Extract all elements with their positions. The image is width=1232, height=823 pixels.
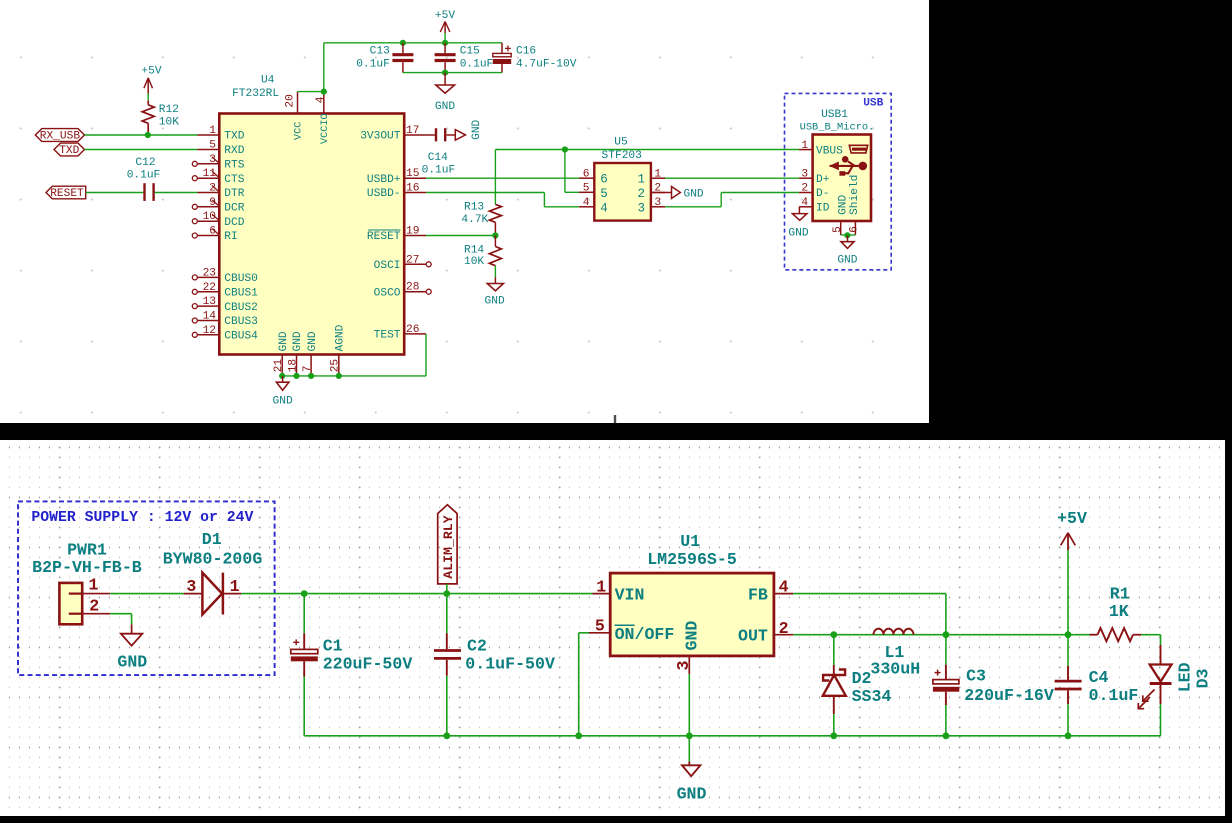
global label RX_USB bbox=[35, 129, 84, 142]
wire USBD- to U5 pin 4 bbox=[544, 206, 579, 208]
svg-text:14: 14 bbox=[203, 311, 217, 323]
PWR1 pin 2 bbox=[69, 613, 82, 615]
svg-text:LM2596S-5: LM2596S-5 bbox=[647, 550, 737, 569]
USB1 pin 3 D+ bbox=[799, 177, 813, 179]
svg-text:R13: R13 bbox=[464, 201, 484, 213]
svg-text:C12: C12 bbox=[135, 157, 155, 169]
svg-text:DCR: DCR bbox=[224, 203, 244, 215]
bottom panel background (grid) bbox=[0, 440, 1225, 816]
svg-text:R1: R1 bbox=[1110, 585, 1130, 604]
U4 pin 11 CTS bbox=[198, 177, 220, 179]
svg-text:7: 7 bbox=[302, 366, 314, 373]
svg-text:11: 11 bbox=[203, 168, 217, 180]
svg-text:GND: GND bbox=[471, 119, 483, 139]
wire USBD- segment bbox=[426, 192, 544, 194]
U4 pin 1 TXD bbox=[198, 134, 220, 136]
svg-text:TEST: TEST bbox=[374, 330, 401, 342]
svg-text:C14: C14 bbox=[428, 152, 448, 164]
svg-text:25: 25 bbox=[330, 359, 342, 372]
junction C2/ALIM_RLY bbox=[443, 590, 450, 597]
svg-text:6: 6 bbox=[849, 226, 861, 233]
U5 pin 2 bbox=[651, 192, 665, 194]
svg-text:3V3OUT: 3V3OUT bbox=[360, 131, 401, 143]
ground flag at U5 pin 2 bbox=[651, 192, 672, 194]
svg-text:220uF-16V: 220uF-16V bbox=[964, 686, 1054, 705]
wire ON/OFF to gnd rail bbox=[579, 632, 589, 634]
U4 pin 16 USBD- bbox=[404, 192, 426, 194]
U1 pin 4 FB bbox=[774, 593, 793, 595]
svg-text:220uF-50V: 220uF-50V bbox=[323, 654, 413, 673]
svg-text:5: 5 bbox=[832, 226, 844, 233]
wire OUT net bbox=[793, 634, 1089, 636]
svg-text:GND: GND bbox=[307, 331, 319, 351]
junction D2 bbox=[830, 631, 837, 638]
capacitor C12 0.1uF bbox=[143, 183, 145, 201]
svg-text:15: 15 bbox=[406, 168, 419, 180]
U4 pin 9 DCR bbox=[198, 206, 220, 208]
svg-text:3: 3 bbox=[637, 201, 645, 215]
svg-text:OSCO: OSCO bbox=[374, 287, 401, 299]
wire VCC-VCCIO bbox=[298, 91, 324, 93]
capacitor C1 220uF-50V (polarized) bbox=[303, 594, 305, 634]
svg-text:C2: C2 bbox=[467, 636, 487, 655]
USB receptacle icon bbox=[849, 145, 867, 153]
USB1 pin 6 Shield (bottom) bbox=[854, 221, 856, 235]
svg-text:4.7K: 4.7K bbox=[461, 214, 488, 226]
wire U5 pin 3 to USB D- bbox=[665, 206, 721, 208]
svg-text:4: 4 bbox=[583, 197, 590, 209]
U4 pin 7 GND (bottom) bbox=[310, 355, 312, 376]
U5 pin 4 bbox=[579, 206, 594, 208]
U4 pin 28 OSCO bbox=[404, 291, 426, 293]
op-amp U4 FT232RL body bbox=[219, 114, 404, 355]
svg-text:6: 6 bbox=[209, 226, 216, 238]
ground rail (bottom) bbox=[304, 735, 1160, 737]
svg-text:+5V: +5V bbox=[1057, 509, 1087, 528]
svg-text:VBUS: VBUS bbox=[816, 145, 843, 157]
junction C2 rail bbox=[443, 732, 450, 739]
U1 pin 1 VIN bbox=[593, 593, 611, 595]
svg-text:2: 2 bbox=[209, 183, 216, 195]
svg-text:2: 2 bbox=[89, 597, 99, 616]
svg-text:DCD: DCD bbox=[224, 217, 244, 229]
svg-text:1: 1 bbox=[801, 140, 808, 152]
global label RESET bbox=[46, 186, 86, 199]
svg-text:19: 19 bbox=[406, 226, 419, 238]
wire VCCIO rail up bbox=[323, 43, 325, 92]
ground at ID pin bbox=[798, 207, 800, 214]
junction C13 top bbox=[400, 40, 406, 46]
svg-text:RI: RI bbox=[224, 231, 237, 243]
capacitor C14 0.1uF bbox=[435, 128, 437, 141]
svg-text:AGND: AGND bbox=[335, 324, 347, 351]
junction C4 bottom bbox=[1065, 732, 1072, 739]
svg-text:RTS: RTS bbox=[224, 160, 244, 172]
svg-text:GND: GND bbox=[837, 255, 857, 267]
svg-text:B2P-VH-FB-B: B2P-VH-FB-B bbox=[32, 558, 142, 577]
U4 pin 4 VCCIO (top) bbox=[323, 92, 325, 114]
wire VBUS to R13 bbox=[494, 150, 496, 205]
svg-text:0.1uF: 0.1uF bbox=[356, 58, 390, 70]
svg-text:2: 2 bbox=[779, 619, 789, 638]
svg-text:4: 4 bbox=[801, 197, 808, 209]
svg-text:3: 3 bbox=[186, 577, 196, 596]
U4 pin 25 AGND (bottom) bbox=[338, 355, 340, 376]
PWR1 pin 1 bbox=[69, 592, 82, 594]
svg-text:USBD+: USBD+ bbox=[367, 174, 401, 186]
svg-text:D3: D3 bbox=[1194, 668, 1213, 688]
svg-text:POWER SUPPLY : 12V or 24V: POWER SUPPLY : 12V or 24V bbox=[31, 510, 253, 526]
top panel background (white) bbox=[0, 0, 929, 423]
wire RX_USB to pin 1 bbox=[85, 134, 198, 136]
svg-text:D-: D- bbox=[816, 188, 829, 200]
wire +5V to R12 bbox=[147, 94, 149, 101]
ground right of C14 bbox=[455, 130, 465, 141]
U4 pin 27 OSCI bbox=[404, 263, 426, 265]
global label ALIM_RLY (vertical) bbox=[438, 505, 457, 584]
svg-text:0.1uF: 0.1uF bbox=[1089, 686, 1139, 705]
U4 pin 2 DTR bbox=[198, 192, 220, 194]
svg-text:TXD: TXD bbox=[224, 131, 244, 143]
wire PWR1 pin2 to GND bbox=[110, 613, 131, 615]
svg-text:2: 2 bbox=[637, 187, 645, 201]
svg-text:0.1uF: 0.1uF bbox=[127, 170, 161, 182]
U5 pin 5 bbox=[579, 191, 594, 193]
junction FB/C3 bbox=[943, 631, 950, 638]
USB1 pin 2 D- bbox=[799, 192, 813, 194]
junction shield gnd bbox=[844, 232, 850, 238]
svg-text:CBUS3: CBUS3 bbox=[224, 316, 258, 328]
svg-text:U5: U5 bbox=[614, 137, 627, 149]
junction C3 bottom bbox=[943, 732, 950, 739]
USB trident icon bbox=[830, 165, 859, 167]
dashed box POWER SUPPLY bbox=[18, 501, 275, 675]
svg-text:C1: C1 bbox=[323, 636, 343, 655]
ground below caps bbox=[444, 73, 446, 85]
junction at R12/TXD wire bbox=[145, 132, 151, 138]
U4 pin 15 USBD+ bbox=[404, 177, 426, 179]
svg-text:10K: 10K bbox=[464, 256, 484, 268]
inductor L1 330uH bbox=[874, 629, 914, 635]
U1 pin 2 OUT bbox=[774, 634, 793, 636]
svg-text:5: 5 bbox=[209, 140, 216, 152]
svg-text:BYW80-200G: BYW80-200G bbox=[163, 550, 263, 569]
svg-text:DTR: DTR bbox=[224, 188, 244, 200]
svg-text:LED: LED bbox=[1175, 662, 1194, 692]
svg-text:5: 5 bbox=[600, 187, 608, 201]
U1 pin 5 ON/OFF bbox=[589, 632, 610, 634]
svg-text:GND: GND bbox=[273, 395, 293, 407]
ground below U1 bbox=[688, 736, 690, 762]
junction C1 bbox=[301, 590, 308, 597]
ground below USB1 bbox=[847, 235, 849, 241]
wire PWR1 pin1 to D1 bbox=[110, 593, 184, 595]
svg-text:GND: GND bbox=[485, 296, 505, 308]
resistor R14 10K bbox=[494, 236, 496, 247]
svg-text:3: 3 bbox=[209, 154, 216, 166]
U5 pin 6 bbox=[579, 177, 594, 179]
svg-text:FT232RL: FT232RL bbox=[232, 88, 279, 100]
resistor R1 1K bbox=[1090, 634, 1098, 636]
svg-text:1: 1 bbox=[209, 125, 216, 137]
svg-text:+5V: +5V bbox=[435, 10, 455, 22]
svg-text:RESET: RESET bbox=[367, 231, 401, 243]
wire top +5V rail bbox=[324, 42, 502, 44]
svg-text:U1: U1 bbox=[680, 532, 700, 551]
U4 pin 13 CBUS2 bbox=[198, 305, 220, 307]
junction ON/OFF rail bbox=[575, 732, 582, 739]
U4 pin 12 CBUS4 bbox=[198, 334, 220, 336]
resistor R13 4.7K bbox=[489, 204, 501, 222]
svg-text:22: 22 bbox=[203, 282, 216, 294]
svg-text:GND: GND bbox=[292, 331, 304, 351]
wire TXD to pin 5 bbox=[85, 149, 198, 151]
svg-text:CBUS2: CBUS2 bbox=[224, 302, 258, 314]
junction U1 GND rail bbox=[686, 732, 693, 739]
sheet boundary tick bbox=[614, 415, 616, 423]
U4 pin 18 GND (bottom) bbox=[296, 355, 298, 376]
svg-text:20: 20 bbox=[284, 94, 296, 108]
U5 pin 1 bbox=[651, 177, 665, 179]
svg-text:GND: GND bbox=[838, 194, 850, 214]
U1 pin 3 GND (bottom) bbox=[688, 656, 690, 674]
wire D1 to U1 VIN bbox=[241, 593, 592, 595]
U5 pin 3 bbox=[651, 206, 665, 208]
svg-text:SS34: SS34 bbox=[852, 687, 892, 706]
wire caps bottom rail bbox=[403, 72, 502, 74]
capacitor C13 0.1uF bbox=[402, 43, 404, 53]
svg-text:CTS: CTS bbox=[224, 174, 244, 186]
wire C12 to pin 2 bbox=[155, 192, 198, 194]
capacitor C15 0.1uF bbox=[444, 43, 446, 53]
svg-text:GND: GND bbox=[117, 653, 147, 672]
svg-text:330uH: 330uH bbox=[870, 660, 920, 679]
svg-text:0.1uF: 0.1uF bbox=[460, 58, 494, 70]
svg-text:USB1: USB1 bbox=[821, 109, 848, 121]
svg-text:4: 4 bbox=[600, 201, 608, 215]
capacitor C2 0.1uF-50V bbox=[446, 594, 448, 634]
svg-text:GND: GND bbox=[677, 785, 707, 804]
svg-text:3: 3 bbox=[654, 197, 661, 209]
ground below R14 bbox=[494, 266, 496, 278]
svg-text:RX_USB: RX_USB bbox=[40, 131, 81, 143]
svg-text:FB: FB bbox=[748, 585, 768, 604]
svg-text:5: 5 bbox=[583, 183, 590, 195]
USB1 pin 1 VBUS bbox=[799, 149, 813, 151]
U4 pin 20 VCC (top) bbox=[297, 92, 299, 114]
IC U1 LM2596S-5 body bbox=[610, 573, 774, 656]
dashed box USB bbox=[785, 93, 892, 269]
junction VCCIO bbox=[321, 89, 327, 95]
svg-text:C4: C4 bbox=[1089, 668, 1109, 687]
junction R13/R14/RESET bbox=[492, 232, 498, 238]
U4 pin 17 3V3OUT bbox=[404, 134, 426, 136]
junction GND pins bbox=[279, 373, 285, 379]
junction +5V/C4 bbox=[1065, 631, 1072, 638]
svg-text:GND: GND bbox=[788, 227, 808, 239]
junction VBUS to U5 pin 5 bbox=[562, 146, 568, 152]
U4 pin 23 CBUS0 bbox=[198, 276, 220, 278]
svg-text:16: 16 bbox=[406, 183, 419, 195]
svg-text:18: 18 bbox=[287, 359, 299, 372]
svg-text:1: 1 bbox=[637, 173, 645, 187]
global label TXD bbox=[54, 143, 85, 156]
svg-text:C15: C15 bbox=[460, 45, 480, 57]
svg-text:CBUS4: CBUS4 bbox=[224, 331, 258, 343]
svg-text:21: 21 bbox=[273, 359, 285, 373]
wire U5 pin 1 to USB D+ bbox=[665, 177, 799, 179]
svg-text:3: 3 bbox=[801, 168, 808, 180]
ground below pin 21 bbox=[282, 376, 284, 382]
junction C15 top bbox=[442, 40, 448, 46]
svg-text:USB_B_Micro.: USB_B_Micro. bbox=[800, 121, 875, 133]
U4 pin 6 RI bbox=[198, 235, 220, 237]
svg-text:9: 9 bbox=[209, 197, 216, 209]
svg-text:+5V: +5V bbox=[141, 66, 161, 78]
U4 pin 21 GND (bottom) bbox=[281, 355, 283, 376]
diode D2 SS34 (schottky) bbox=[833, 635, 835, 665]
U4 pin 10 DCD bbox=[198, 220, 220, 222]
U4 pin 14 CBUS3 bbox=[198, 320, 220, 322]
svg-text:2: 2 bbox=[801, 183, 808, 195]
svg-text:C16: C16 bbox=[516, 45, 536, 57]
svg-text:OUT: OUT bbox=[738, 627, 768, 646]
wire FB net bbox=[793, 593, 946, 595]
wire RESET pin 19 bbox=[426, 235, 495, 237]
U4 pin 26 TEST bbox=[404, 333, 426, 335]
wire RESET to C12 bbox=[86, 192, 144, 194]
U4 pin 19 RESET bbox=[404, 235, 426, 237]
svg-text:D2: D2 bbox=[852, 669, 872, 688]
svg-text:28: 28 bbox=[406, 282, 419, 294]
svg-text:USB: USB bbox=[863, 98, 883, 110]
svg-text:ON/OFF: ON/OFF bbox=[615, 625, 675, 644]
svg-text:5: 5 bbox=[595, 617, 605, 636]
wire VBUS drop to U5 pin 5 bbox=[564, 150, 566, 193]
IC U5 STF203 body bbox=[594, 163, 651, 221]
LED D3 bbox=[1160, 635, 1162, 645]
wire USBD- vertical bbox=[543, 193, 545, 207]
svg-text:10: 10 bbox=[203, 211, 217, 223]
wire shield-gnd join bbox=[841, 234, 856, 236]
svg-text:1: 1 bbox=[230, 577, 240, 596]
svg-text:D1: D1 bbox=[202, 530, 222, 549]
capacitor C16 4.7uF-10V (polarized) bbox=[501, 43, 503, 53]
svg-text:CBUS0: CBUS0 bbox=[224, 273, 258, 285]
svg-text:TXD: TXD bbox=[59, 145, 79, 157]
svg-text:26: 26 bbox=[406, 324, 419, 336]
svg-text:GND: GND bbox=[278, 331, 290, 351]
junction C15 bottom bbox=[442, 70, 448, 76]
svg-text:PWR1: PWR1 bbox=[67, 540, 107, 559]
svg-text:GND: GND bbox=[682, 621, 701, 651]
svg-text:23: 23 bbox=[203, 267, 216, 279]
svg-text:4.7uF-10V: 4.7uF-10V bbox=[516, 58, 577, 70]
svg-text:6: 6 bbox=[583, 168, 590, 180]
svg-text:USBD-: USBD- bbox=[367, 188, 401, 200]
USB1 pin 5 GND (bottom) bbox=[840, 221, 842, 235]
svg-text:STF203: STF203 bbox=[602, 150, 642, 162]
svg-text:1: 1 bbox=[654, 168, 661, 180]
svg-text:0.1uF-50V: 0.1uF-50V bbox=[465, 654, 555, 673]
svg-text:4: 4 bbox=[315, 96, 327, 103]
svg-text:3: 3 bbox=[674, 661, 693, 671]
wire TEST pin 26 bbox=[425, 334, 427, 376]
svg-text:17: 17 bbox=[406, 125, 419, 137]
svg-text:VCC: VCC bbox=[293, 122, 304, 140]
svg-text:VCCIO: VCCIO bbox=[320, 113, 331, 144]
wire USBD+ to U5 pin 6 bbox=[426, 177, 579, 179]
ground at PWR1 pin2 bbox=[131, 624, 133, 633]
svg-text:GND: GND bbox=[435, 101, 455, 113]
svg-text:OSCI: OSCI bbox=[374, 260, 401, 272]
svg-text:VIN: VIN bbox=[615, 585, 645, 604]
svg-text:C13: C13 bbox=[370, 45, 390, 57]
junction D2 bottom bbox=[830, 732, 837, 739]
svg-text:R12: R12 bbox=[159, 104, 179, 116]
U4 pin 5 RXD bbox=[198, 149, 220, 151]
svg-text:1: 1 bbox=[89, 575, 99, 594]
U4 pin 22 CBUS1 bbox=[198, 291, 220, 293]
svg-text:0.1uF: 0.1uF bbox=[422, 165, 456, 177]
svg-text:U4: U4 bbox=[261, 75, 275, 87]
svg-text:6: 6 bbox=[600, 173, 608, 187]
svg-text:1: 1 bbox=[596, 577, 606, 596]
svg-text:CBUS1: CBUS1 bbox=[224, 288, 258, 300]
svg-text:Shield: Shield bbox=[849, 175, 861, 215]
capacitor C4 0.1uF bbox=[1067, 635, 1069, 666]
svg-text:27: 27 bbox=[406, 254, 419, 266]
wire 3V3OUT bbox=[426, 134, 436, 136]
svg-text:D+: D+ bbox=[816, 174, 830, 186]
svg-text:ID: ID bbox=[816, 203, 830, 215]
svg-text:C3: C3 bbox=[966, 667, 986, 686]
svg-text:13: 13 bbox=[203, 296, 216, 308]
svg-text:R14: R14 bbox=[464, 245, 484, 257]
USB1 pin 4 ID bbox=[799, 206, 813, 208]
svg-text:10K: 10K bbox=[159, 117, 179, 129]
wire label to rail bbox=[446, 584, 448, 594]
svg-text:RESET: RESET bbox=[50, 188, 84, 200]
svg-text:4: 4 bbox=[779, 577, 789, 596]
svg-text:RXD: RXD bbox=[224, 145, 244, 157]
svg-text:12: 12 bbox=[203, 325, 216, 337]
wire VBUS rail bbox=[495, 149, 799, 151]
capacitor C3 220uF-16V (polarized) bbox=[945, 635, 947, 665]
svg-text:GND: GND bbox=[684, 188, 704, 200]
svg-text:ALIM_RLY: ALIM_RLY bbox=[441, 515, 456, 578]
svg-text:1K: 1K bbox=[1109, 602, 1129, 621]
resistor R12 10K bbox=[147, 101, 149, 105]
U4 pin 3 RTS bbox=[198, 163, 220, 165]
